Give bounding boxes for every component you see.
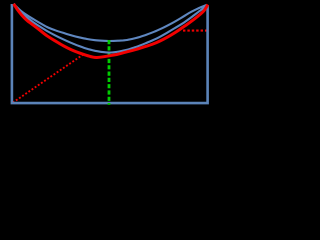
lower blue curve <box>14 4 207 53</box>
red thick curve <box>14 4 208 58</box>
upper blue curve <box>14 4 207 41</box>
green dashed vertical marker at minimum <box>108 40 111 105</box>
red dotted ray from origin <box>13 54 84 102</box>
axis frame (left, bottom, right) <box>11 4 209 103</box>
red dotted horizontal callout <box>183 30 207 32</box>
